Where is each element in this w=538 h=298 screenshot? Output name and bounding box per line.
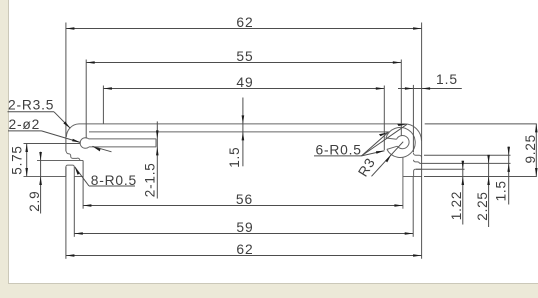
svg-text:62: 62 [236, 15, 253, 30]
arrowheads 2.25 (outside) [487, 155, 490, 164]
dimension line 1.22 right [462, 161, 464, 225]
svg-text:55: 55 [236, 49, 253, 64]
label 8-R0.5 [75, 167, 137, 188]
profile right foot left wall with 56 extension [402, 158, 404, 209]
svg-text:2.9: 2.9 [27, 191, 42, 212]
extension line left hole center [24, 143, 81, 145]
profile slot upper lip line [89, 138, 156, 140]
svg-text:1.22: 1.22 [449, 191, 464, 220]
arrowheads 62 top [66, 27, 75, 30]
extension line right side top y=124 [425, 123, 537, 125]
svg-text:9.25: 9.25 [523, 134, 538, 163]
leader 8-R0.5 [75, 167, 89, 186]
extension line left 55 [85, 60, 87, 139]
dimension line 2.9 left [40, 152, 42, 214]
arrowheads 62 bottom [66, 254, 75, 257]
dimension line 62 bottom [66, 255, 422, 257]
label 6-R0.5 [314, 124, 407, 158]
extension line right side lip top [424, 154, 511, 156]
arrowheads 1.5 wall (outside) [242, 115, 245, 124]
dimension line 1.5 right [508, 147, 510, 205]
profile left S-step edge [66, 152, 80, 161]
arrowheads 59 [74, 232, 83, 235]
svg-text:62: 62 [236, 242, 253, 257]
svg-text:2.25: 2.25 [475, 191, 490, 220]
profile bottom line left of notch with extension [24, 176, 66, 178]
dimension line 2.25 right [488, 155, 490, 227]
leader 6-R0.5 c to boss lower-left [362, 151, 385, 156]
profile bottom line right of notch [74, 176, 83, 178]
leader 6-R0.5 b to boss upper-left [362, 132, 389, 156]
svg-text:59: 59 [236, 220, 253, 235]
profile top edge [79, 123, 405, 125]
profile corner R3.5 arc top-left [66, 124, 79, 137]
arrowheads 1.22 (outside) [462, 161, 465, 170]
svg-text:1.5: 1.5 [227, 147, 242, 168]
dimension line 56 bottom [83, 205, 403, 207]
profile right boss slot lower line [387, 146, 397, 149]
svg-text:56: 56 [236, 192, 253, 207]
arrowheads 1.5 top-right (outside) [405, 87, 414, 90]
profile right lip bottom corner arc [414, 160, 420, 164]
extension line right side lip bottom [420, 162, 511, 164]
arrowheads 2-1.5 (outside) [156, 130, 159, 139]
bottom margin strip [0, 284, 538, 298]
leader R3 [372, 142, 404, 177]
dimension line 1.5 top-right [398, 88, 462, 90]
profile left screw hole ø2 C-shape [80, 138, 89, 149]
extension line lip left for top 1.5 [412, 85, 414, 152]
dimension line 9.25 right [535, 124, 537, 177]
left margin strip [0, 0, 8, 298]
profile right boss slot upper line [386, 138, 397, 139]
svg-text:49: 49 [236, 75, 253, 90]
dimension line 59 bottom [74, 233, 413, 235]
svg-text:6-R0.5: 6-R0.5 [316, 143, 362, 158]
dimension line 62 top [66, 28, 422, 30]
label 2-ø2 [8, 117, 81, 142]
profile right screw boss circle [386, 127, 415, 157]
profile right foot bottom line [403, 176, 422, 178]
svg-text:2-ø2: 2-ø2 [9, 117, 41, 132]
extension line right side bottom [424, 176, 537, 178]
extension line left 56 foot edge [82, 161, 84, 209]
arrowheads 56 [83, 204, 92, 207]
label 2-R3.5 [8, 98, 71, 129]
profile right R3 corner arc [405, 124, 422, 141]
extension line left 59 below notch [73, 177, 75, 237]
dimension line 5.75 left [26, 144, 28, 177]
extension line left 62 lower [65, 167, 67, 259]
arrowheads 9.25 [535, 124, 538, 132]
leader arrow to left hole fillet [92, 146, 111, 152]
extension line right 62 full [421, 23, 423, 259]
arrowheads 5.75 [25, 144, 28, 153]
dimension line 55 [86, 62, 401, 64]
profile right boss inner hole C-shape [397, 136, 410, 149]
profile slot right end closure [155, 139, 157, 147]
arrowheads 1.5 right (outside) [507, 147, 510, 156]
extension line right side foot step [416, 168, 465, 170]
leader 2-ø2 [42, 131, 81, 143]
extension line right 59 [412, 177, 414, 237]
arrowheads 49 [103, 87, 112, 90]
svg-text:2-R3.5: 2-R3.5 [8, 98, 54, 113]
dimension line 2-1.5 vertical [156, 121, 158, 198]
profile right foot step edge [414, 169, 422, 176]
extension line right 55 [400, 60, 402, 136]
extension line left 49 [102, 86, 104, 124]
svg-text:5.75: 5.75 [10, 145, 25, 174]
svg-text:1.5: 1.5 [493, 180, 508, 201]
leader 2-R3.5 [54, 112, 70, 129]
svg-text:2-1.5: 2-1.5 [143, 162, 158, 197]
profile left foot top line with 2.9 extension [37, 160, 83, 162]
arrowheads 2.9 (outside) [39, 152, 42, 161]
profile left foot bottom notch [66, 165, 74, 176]
profile right lip top edge [413, 153, 421, 157]
extension line right 49 [383, 86, 385, 151]
profile slot lower lip line [89, 146, 156, 148]
dimension line 49 [103, 88, 384, 90]
dimension line 1.5 wall [242, 98, 244, 167]
extension line left 62 upper [65, 23, 67, 152]
arrowheads 55 [86, 61, 95, 64]
leader 6-R0.5 a to top edge [362, 124, 407, 155]
profile inner top wall line [89, 131, 390, 133]
svg-text:1.5: 1.5 [436, 72, 458, 87]
label R3 rotated [355, 142, 403, 180]
